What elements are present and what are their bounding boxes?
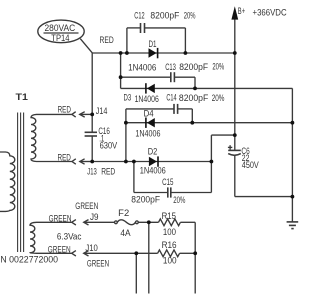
svg-text:J14: J14 <box>96 106 108 116</box>
capacitor C14 <box>126 104 192 123</box>
connector J9 <box>72 212 115 225</box>
wire R16 right to vertical <box>180 252 196 254</box>
svg-text:RED: RED <box>100 35 115 45</box>
svg-text:RED: RED <box>101 166 115 176</box>
wire D4 row horizontal <box>126 122 293 124</box>
svg-text:GREEN: GREEN <box>49 214 72 224</box>
svg-text:C15: C15 <box>162 177 173 187</box>
svg-text:4A: 4A <box>120 228 130 238</box>
svg-text:C12: C12 <box>134 11 144 21</box>
wire callout leader diagonal <box>80 39 92 53</box>
svg-text:R15: R15 <box>162 211 176 221</box>
svg-text:B+: B+ <box>238 6 245 16</box>
svg-text:20%: 20% <box>212 93 225 103</box>
wire D1 row horizontal <box>92 52 235 54</box>
junction D1 row / B+ <box>233 51 237 55</box>
label C15 value <box>131 177 185 205</box>
svg-text:J9: J9 <box>90 212 99 222</box>
wire right vertical D3 row to ground <box>291 88 293 221</box>
wire right vertical R15/R16 <box>194 222 196 293</box>
capacitor C16 <box>85 126 118 150</box>
wire J10 row down vertical <box>135 253 137 293</box>
wire C16 bottom to J13 row <box>91 136 93 161</box>
svg-text:1N4006: 1N4006 <box>128 62 156 72</box>
capacitor C13 <box>121 72 195 88</box>
junction C14 right / D4 row <box>190 121 194 125</box>
svg-text:TP14: TP14 <box>51 33 69 43</box>
svg-text:1N4006: 1N4006 <box>135 94 159 104</box>
svg-text:20%: 20% <box>173 195 185 205</box>
transformer T1 primary winding <box>0 152 15 211</box>
junction C13 left tap <box>119 75 123 79</box>
svg-text:450V: 450V <box>242 160 259 170</box>
svg-text:6.3Vac: 6.3Vac <box>57 232 82 242</box>
junction J13 row / V4 <box>124 160 128 164</box>
svg-text:D4: D4 <box>144 108 154 118</box>
svg-text:R16: R16 <box>162 240 177 250</box>
svg-text:+366VDC: +366VDC <box>253 8 288 18</box>
svg-text:J10: J10 <box>85 243 97 253</box>
wire vertical RED node to J14/C16 <box>91 53 93 132</box>
junction J14 <box>90 113 94 117</box>
junction J10 row / down vertical <box>134 251 138 255</box>
wire B+ vertical <box>234 20 236 151</box>
wire D3 row horizontal <box>121 87 293 89</box>
svg-text:8200pF: 8200pF <box>179 62 208 72</box>
connector J10 <box>72 243 158 256</box>
wire B+ tap horizontal <box>211 134 234 136</box>
junction R16 right <box>193 251 197 255</box>
junction B+ tap <box>233 133 237 137</box>
transformer T1 secondary winding lower (GREEN) <box>30 222 72 253</box>
junction D4 row left <box>124 121 128 125</box>
svg-text:C14: C14 <box>166 93 176 103</box>
svg-text:RED: RED <box>58 105 72 115</box>
svg-text:T1: T1 <box>16 92 28 102</box>
junction D4 row / right vertical <box>291 121 295 125</box>
svg-text:280VAC: 280VAC <box>45 23 76 33</box>
junction C6 bottom / ground line <box>291 195 295 199</box>
wire J9 row down vertical <box>148 222 150 293</box>
diode D3 <box>124 83 155 102</box>
wire C15 right vertical to B+ tap <box>210 135 212 192</box>
diode D1 <box>149 39 159 58</box>
svg-text:GREEN: GREEN <box>87 259 109 269</box>
svg-text:GREEN: GREEN <box>75 201 98 211</box>
label C12 value <box>134 10 195 20</box>
svg-text:F2: F2 <box>118 208 129 218</box>
junction D1 row / V2 <box>119 51 123 55</box>
wire R15 right to corner <box>180 221 195 223</box>
wire vertical D1 row to D3 row <box>120 53 122 88</box>
wire vertical C14 left to J13 row <box>125 109 127 162</box>
svg-text:100: 100 <box>163 227 176 237</box>
junction C13 right / D3 row <box>193 87 197 91</box>
label C13 value <box>165 62 224 72</box>
svg-text:N 0022772000: N 0022772000 <box>0 255 58 265</box>
node TP14 callout ellipse 280VAC <box>38 20 84 43</box>
junction C15 left <box>132 160 136 164</box>
label C14 value <box>166 93 224 103</box>
svg-text:1N4006: 1N4006 <box>140 166 166 176</box>
junction J9 row / down vertical <box>147 220 151 224</box>
junction D1 row / C12 left <box>125 51 129 55</box>
wire F2 to R15 <box>138 221 158 223</box>
svg-text:RED: RED <box>58 152 72 162</box>
svg-text:GREEN: GREEN <box>48 245 71 255</box>
wire J13/D2 row horizontal <box>91 161 211 163</box>
capacitor C15 <box>134 162 212 198</box>
svg-text:8200pF: 8200pF <box>150 11 179 21</box>
wire C6 bottom horizontal <box>235 196 293 198</box>
power B+ arrow <box>231 6 287 20</box>
transformer T1 secondary winding upper (RED) <box>31 114 72 161</box>
svg-text:8200pF: 8200pF <box>179 93 209 103</box>
ground <box>287 222 299 229</box>
diode D2 <box>148 146 159 166</box>
svg-text:630V: 630V <box>100 140 118 150</box>
capacitor C12 <box>127 23 185 53</box>
capacitor C6 <box>228 145 259 196</box>
transformer T1 core <box>18 113 24 253</box>
svg-text:1N4006: 1N4006 <box>135 129 160 139</box>
svg-text:8200pF: 8200pF <box>131 194 160 204</box>
diode D4 <box>144 108 155 128</box>
svg-text:100: 100 <box>163 255 177 265</box>
connector J13 <box>72 159 116 177</box>
junction J13 <box>90 160 94 164</box>
svg-text:20%: 20% <box>184 10 196 20</box>
resistor R16 <box>158 240 180 265</box>
fuse F2 <box>115 208 139 238</box>
junction D2 row right <box>210 160 214 164</box>
svg-text:C13: C13 <box>165 62 176 72</box>
junction D1 row / C12 right <box>184 51 188 55</box>
svg-text:D2: D2 <box>148 146 158 156</box>
resistor R15 <box>159 211 181 237</box>
svg-text:D3: D3 <box>124 92 132 102</box>
svg-text:D1: D1 <box>149 39 157 49</box>
connector J14 <box>72 106 108 117</box>
svg-text:J13: J13 <box>87 166 97 176</box>
svg-text:20%: 20% <box>212 62 224 72</box>
